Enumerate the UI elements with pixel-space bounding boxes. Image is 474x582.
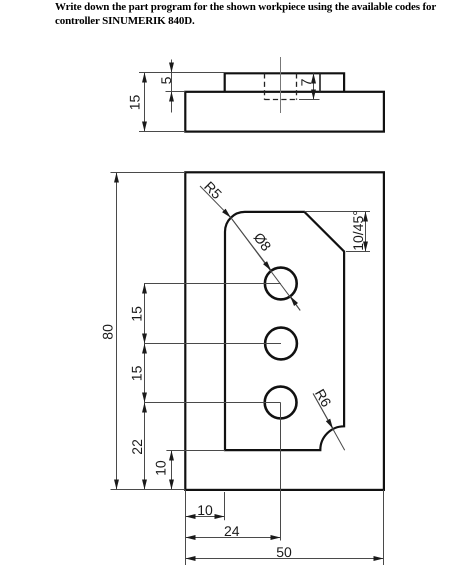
svg-text:80: 80: [100, 324, 116, 340]
svg-text:50: 50: [276, 544, 292, 560]
svg-text:10: 10: [152, 460, 168, 476]
svg-text:10: 10: [197, 502, 213, 518]
svg-text:10/45°: 10/45°: [350, 210, 366, 251]
svg-text:R5: R5: [201, 178, 225, 202]
svg-text:15: 15: [129, 306, 145, 322]
svg-text:22: 22: [129, 439, 145, 455]
svg-text:15: 15: [127, 95, 143, 111]
svg-text:R6: R6: [312, 386, 335, 410]
svg-text:15: 15: [129, 365, 145, 381]
svg-text:24: 24: [224, 523, 240, 539]
svg-text:5: 5: [158, 76, 174, 84]
svg-text:7: 7: [298, 78, 314, 86]
svg-text:Ø8: Ø8: [251, 229, 275, 254]
